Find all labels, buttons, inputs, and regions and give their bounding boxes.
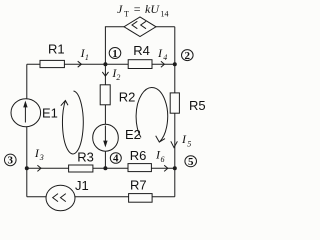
junction dot c	[25, 166, 29, 170]
svg-text:14: 14	[161, 10, 169, 19]
resistor R4	[128, 43, 152, 69]
svg-text:3: 3	[39, 153, 44, 162]
svg-text:E1: E1	[42, 105, 58, 120]
node 4	[110, 153, 121, 165]
wire upper branch left	[105, 27, 124, 64]
svg-text:R7: R7	[130, 177, 147, 192]
svg-text:R2: R2	[119, 90, 136, 105]
current arrow I2	[102, 66, 120, 82]
svg-text:4: 4	[113, 153, 119, 165]
svg-text:1: 1	[85, 53, 89, 62]
resistor R7	[129, 177, 153, 202]
resistor R3	[69, 150, 94, 172]
node 2	[182, 50, 194, 62]
junction dot b	[173, 62, 177, 66]
svg-text:R5: R5	[189, 98, 206, 113]
svg-text:5: 5	[188, 156, 194, 168]
node 3	[5, 154, 17, 167]
svg-text:J: J	[117, 2, 123, 16]
junction dot d	[103, 166, 107, 170]
current arrow I3	[34, 146, 44, 171]
svg-text:R1: R1	[48, 41, 65, 56]
resistor R5	[170, 93, 205, 113]
source E1	[11, 99, 58, 127]
svg-text:E2: E2	[125, 127, 141, 142]
source E2	[93, 124, 141, 151]
wire right column	[174, 27, 176, 197]
dependent source J_T diamond	[124, 17, 156, 37]
wire center branch	[104, 64, 106, 168]
svg-text:J1: J1	[75, 178, 89, 193]
svg-text:R3: R3	[77, 150, 94, 165]
svg-text:5: 5	[187, 140, 191, 149]
svg-text:T: T	[124, 10, 129, 19]
wire bottom	[27, 196, 175, 198]
resistor R2	[100, 85, 135, 105]
wire upper branch right	[156, 26, 175, 28]
current arrow I6	[155, 148, 168, 172]
label J_T = kU_14	[117, 2, 169, 19]
wire left column	[26, 64, 28, 197]
svg-text:6: 6	[161, 155, 165, 164]
junction dot e	[173, 166, 177, 170]
mesh loop arrow right	[136, 87, 168, 142]
mesh loop arrow left	[61, 91, 83, 154]
node 1	[109, 48, 121, 60]
svg-text:4: 4	[163, 53, 167, 62]
node 5	[185, 156, 197, 168]
svg-text:2: 2	[185, 50, 191, 62]
resistor R1	[40, 41, 65, 67]
junction dot a	[103, 62, 107, 66]
current arrow I4	[157, 46, 167, 67]
svg-text:=: =	[133, 2, 141, 16]
current source J1	[46, 178, 89, 211]
svg-text:R6: R6	[130, 148, 147, 163]
svg-text:R4: R4	[133, 43, 150, 58]
resistor R6	[128, 148, 151, 172]
wire top	[27, 63, 175, 65]
wire middle row	[27, 167, 175, 169]
svg-text:kU: kU	[145, 2, 160, 16]
current arrow I5	[171, 132, 191, 149]
svg-text:3: 3	[8, 155, 14, 167]
svg-text:1: 1	[112, 48, 118, 60]
current arrow I1	[78, 46, 89, 67]
svg-text:2: 2	[116, 73, 120, 82]
